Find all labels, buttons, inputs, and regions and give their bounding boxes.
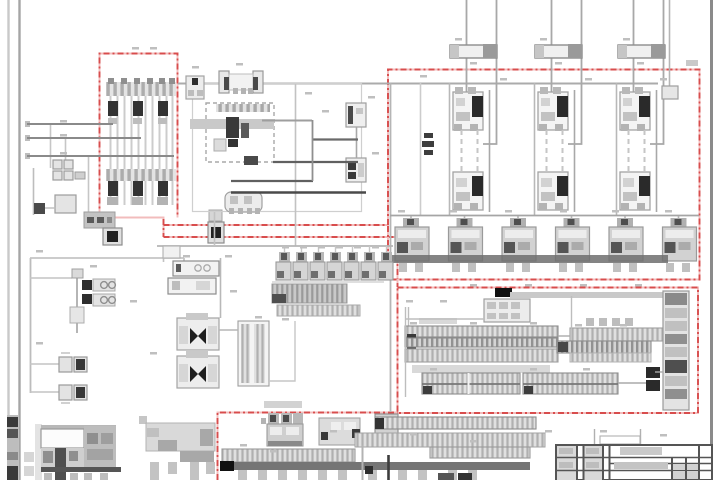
marshalling box bus bar: [41, 467, 121, 472]
marshalling box housing: [41, 429, 84, 448]
marshalling box side cabinet: [84, 426, 116, 468]
arrester lead: [45, 207, 56, 209]
sheet right border: [710, 0, 713, 480]
terminal strip XT2 row C: [570, 353, 651, 362]
page fold edge line left inner: [18, 0, 20, 480]
time relay KT1: [173, 261, 219, 276]
phase bus L3 overdraw: [27, 155, 174, 157]
feeder bottom stubs: [399, 263, 690, 272]
incomer wire W2b: [568, 0, 582, 144]
current transformer TA2: [208, 210, 224, 243]
breaker QF2 terminal row: [106, 169, 176, 181]
fuse switch QS1: [450, 44, 497, 58]
fuse row base line: [272, 281, 384, 283]
enclosure outline A3 (red dash): [218, 413, 398, 480]
feeder bus dark band: [392, 255, 668, 263]
breaker QF1 top caps: [108, 78, 175, 84]
rectifier gray band: [190, 119, 274, 129]
control distribution wire: [157, 245, 393, 247]
surge arrester FV1: [34, 203, 45, 214]
terminal strip XT1 row B: [405, 338, 558, 347]
relay KA2: [346, 158, 366, 182]
trough stubs: [150, 462, 215, 480]
relay column dark: [55, 448, 66, 480]
branch drop to auxiliary relay: [183, 258, 185, 263]
box bottom stubs: [44, 473, 108, 480]
phase bus L1: [27, 123, 113, 125]
control feed bus vertical: [30, 258, 32, 393]
control bus wire: [178, 83, 658, 85]
signal wire n2: [312, 138, 358, 140]
incomer wire W1b: [483, 0, 497, 144]
pilot lamp label strip: [264, 401, 302, 408]
terminal strip XT2 row A: [570, 328, 666, 341]
relay module dark K5: [646, 367, 660, 378]
drop from transformer: [214, 212, 216, 246]
fuse FU0: [75, 172, 85, 179]
signal wire n1: [262, 120, 312, 122]
relay contact block K1: [177, 313, 219, 350]
control unit frame: [193, 84, 362, 212]
marshalling box terminal row: [41, 448, 84, 467]
terminal strip XT6: [355, 433, 545, 447]
SECTION_TITLE: [556, 445, 712, 480]
wire number labels (illegible text ghosts): [36, 38, 672, 453]
breaker QF2 pole fuse A: [108, 181, 118, 196]
time relay KT2: [168, 278, 216, 294]
small junction box: [163, 246, 180, 258]
cable duct strip: [35, 424, 42, 480]
spare wire marks: [24, 452, 34, 476]
control drop wire: [295, 84, 297, 246]
ground riser wire: [33, 168, 35, 215]
fuse row FU10..FU16: [276, 252, 393, 280]
strip feed wire left: [405, 318, 484, 320]
title block left grid fills: [557, 446, 602, 480]
feeder rail: [390, 215, 699, 217]
enclosure outline E1 (red dash): [100, 54, 178, 218]
pilot lamp trio caps: [261, 413, 303, 424]
tap wire T1: [50, 124, 52, 168]
SECTION_CENTER: [157, 212, 393, 388]
terminal strip XT7 long: [222, 449, 355, 462]
breaker pole wires: [111, 96, 173, 205]
enclosure E1 bottom edge pink base: [100, 218, 164, 238]
feeder unit FU1: [395, 218, 429, 261]
bus terminal tick L2: [25, 135, 30, 141]
signal converter dark unit: [375, 414, 398, 446]
shield link wire lower (to cabinet A2): [164, 237, 398, 287]
enclosure outline E1 (top-left cabinet, pink base): [100, 54, 178, 218]
junction blob: [365, 466, 373, 474]
pilot lamp terminal box: [267, 424, 303, 446]
terminal strip XT1 label ghost: [419, 318, 457, 324]
phase bus L3: [27, 155, 174, 157]
breaker QF1 terminal row top: [106, 82, 176, 96]
SECTION_BOXB: [27, 78, 176, 205]
terminal strip XT5: [375, 417, 536, 429]
breaker QF2 pole fuse B: [133, 181, 143, 196]
current transformer TA1: [103, 228, 122, 245]
filter block: [214, 139, 226, 151]
isolating switch S1: [186, 76, 204, 99]
feeder unit FU3: [502, 218, 536, 261]
riser to terminal strip XT1: [408, 307, 410, 326]
SECTION_RED: [100, 54, 700, 480]
DIN rail stack right: [663, 291, 689, 410]
strip left riser: [405, 307, 407, 397]
enclosure outline A2 (red dash): [398, 288, 699, 414]
relay riser wire: [220, 258, 222, 318]
rectifier terminal row: [216, 104, 270, 112]
tap wire T2: [65, 138, 67, 168]
breaker QF1 pole fuse A: [108, 101, 118, 116]
contactor coil KM0: [219, 71, 263, 94]
pushbutton SB2: [59, 385, 87, 403]
interconnect wire across: [510, 292, 663, 298]
incomer wire W1a: [466, 0, 468, 92]
relay contact block K2: [177, 351, 219, 388]
terminal strip XT1 row C: [405, 349, 558, 362]
enclosure outline A1 (red dash): [388, 70, 700, 280]
junction trough band: [146, 423, 215, 451]
starter left rail R3: [616, 83, 618, 215]
feeder drop stubs: [411, 216, 679, 219]
sheet cell fills: [673, 464, 698, 479]
junction trough lower band: [180, 451, 214, 462]
cabinet label tag: [686, 60, 698, 66]
bus drop stubs: [238, 470, 477, 480]
feeder unit FU4: [556, 218, 590, 261]
fuse row feed stubs: [285, 246, 387, 252]
branch wire to pushbutton SB2: [30, 391, 61, 393]
auxiliary contact group SA1: [70, 269, 115, 333]
PLC power module dark cap: [495, 288, 512, 297]
enclosure outline A1 (top-right drives cabinet, pink base): [388, 70, 700, 280]
signal wire n5: [231, 191, 366, 193]
incomer wire W3b: [650, 0, 664, 144]
bus terminal tick L3: [25, 153, 30, 159]
branch wire to contact group: [30, 277, 72, 279]
aux riser in cabinet: [420, 83, 422, 215]
pushbutton SB1: [59, 353, 87, 372]
rectifier diode stack D1: [226, 117, 239, 138]
relay link to DIN stack: [655, 371, 663, 373]
terminal row marks: [43, 451, 78, 463]
feeder unit FU2: [449, 218, 483, 261]
PLC module terminal header: [484, 299, 530, 322]
starter assembly KM2: [538, 87, 575, 212]
rectifier diode stack D2: [241, 123, 249, 138]
phase bus L2: [27, 137, 141, 139]
relay module dark K6: [646, 380, 660, 391]
revision cells ghost: [559, 448, 599, 468]
wire trunk to title area: [595, 429, 641, 444]
starter assembly KM1: [453, 87, 490, 212]
voltage transformer TV1 cluster: [53, 160, 76, 213]
title block vertical rules: [577, 445, 699, 480]
fuse switch QS2: [535, 44, 582, 58]
junction trough cap: [139, 416, 147, 424]
terminal strip XT1 row D light: [412, 365, 550, 373]
terminal strip XT3 left: [422, 373, 520, 394]
SECTION_BOX2: [405, 288, 689, 410]
output choke L1: [244, 156, 258, 165]
phase bus L1 overdraw: [27, 123, 113, 125]
starter left rail R2: [534, 83, 536, 215]
cable label 1M1: [422, 133, 434, 155]
breaker QF2 pole fuse C: [158, 181, 168, 196]
marshalling box top rail: [41, 425, 116, 430]
control feed branch top: [30, 257, 184, 259]
transformer T1: [225, 192, 262, 214]
bus terminal tick L1: [25, 121, 30, 127]
doc number text ghost: [620, 447, 662, 455]
terminal strip XT2 row B dark: [557, 341, 651, 353]
link wire to column block: [219, 329, 238, 331]
aux contact box: [319, 418, 360, 445]
terminal column block X4: [238, 321, 269, 386]
doc title text ghost: [614, 462, 668, 469]
page fold edge line left outer: [7, 0, 9, 480]
distribution strip row B: [277, 305, 360, 316]
edge terminal strip dark: [7, 415, 18, 480]
starter left rail R1: [449, 83, 451, 215]
feeder unit FU5: [609, 218, 643, 261]
branch wire to pushbutton SB1: [30, 363, 61, 365]
title block horizontal rules: [556, 458, 712, 471]
breaker QF1 pole fuse B: [133, 101, 143, 116]
dark drop wire: [387, 455, 390, 480]
breaker QF1 mid marks: [108, 118, 167, 124]
SECTION_BOTTOM: [7, 401, 641, 480]
filter capacitor C1: [228, 139, 238, 147]
enclosure outline A2 (middle-right terminal cabinet, pink base): [398, 288, 699, 414]
phase bus L2 overdraw: [27, 137, 141, 139]
rectifier module U1 dashed enclosure: [206, 103, 274, 162]
enclosure outline A3 (bottom terminal cabinet, pink base): [218, 413, 398, 480]
terminal strip XT2 header marks: [586, 318, 633, 326]
drawing number tag: [600, 436, 640, 444]
duct drop wire: [362, 445, 364, 480]
bottom interconnect wire: [618, 382, 646, 384]
drop to relay box: [163, 246, 165, 262]
relay KA1: [346, 103, 366, 127]
bottom-right dark cells: [438, 473, 472, 480]
strip interconnect wire: [558, 335, 570, 337]
signal wire n3: [273, 161, 358, 163]
pilot device on incomer: [662, 0, 678, 99]
column block drop wire: [269, 321, 295, 381]
breaker QF1 pole fuse C: [158, 101, 168, 116]
bottom bus dark band: [222, 462, 530, 470]
SECTION_LEFT: [25, 121, 224, 403]
signal wire n4: [231, 180, 313, 182]
SECTION_BOX1: [390, 0, 699, 272]
breaker QF2 bottom marks: [107, 197, 168, 205]
relay link wire: [356, 127, 358, 158]
incomer wire W2a: [551, 0, 553, 92]
signal riser n6: [312, 120, 314, 181]
SECTION_MIDTOP: [178, 71, 658, 412]
shield link wire upper (to cabinet A1): [164, 224, 389, 226]
meter shunt block: [84, 212, 115, 228]
distribution strip row A: [272, 284, 347, 303]
starter assembly KM3: [620, 87, 657, 212]
incomer wire W3a: [633, 0, 635, 92]
terminal strip XT1 row A: [405, 326, 558, 352]
title block frame: [556, 445, 712, 480]
strip riser wire: [571, 296, 573, 329]
cabinet drop wire long: [390, 83, 392, 412]
terminal strip XT3 right: [523, 373, 618, 394]
terminal strip XT8 right: [430, 447, 530, 458]
tap wire T3: [88, 156, 90, 212]
fuse switch QS3: [618, 44, 665, 58]
bottom bus feed block: [220, 461, 234, 471]
feeder unit FU6: [663, 218, 697, 261]
